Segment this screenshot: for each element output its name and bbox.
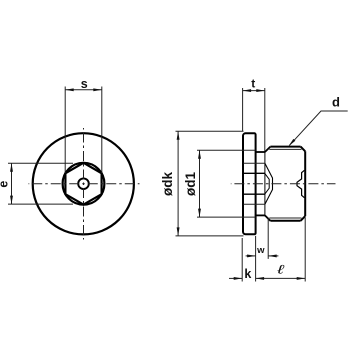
svg-text:s: s (81, 77, 88, 91)
phi-dk arrow bottom (177, 227, 180, 236)
k extension left (241, 238, 243, 282)
t arrow right (256, 89, 265, 92)
chamfer top-left of body (265, 147, 271, 152)
hexagon socket (65, 163, 101, 205)
s extension line right (101, 87, 103, 174)
washer face top silhouette (256, 151, 265, 153)
chamfer bottom-left of body (265, 215, 271, 220)
l arrow left (256, 277, 265, 280)
phi-dk extension bottom (176, 235, 244, 237)
w left ext (flange right face extended) (255, 236, 257, 282)
k approach line with arrow (229, 277, 242, 279)
s arrow right (93, 88, 102, 91)
w arrow right (pointing left) (268, 254, 277, 257)
l dimension line (256, 277, 306, 279)
phi-d1 extension bottom (197, 216, 256, 218)
l arrow right (297, 277, 306, 280)
svg-text:d: d (332, 95, 340, 110)
phi-dk extension top (176, 130, 244, 132)
phi-d1 arrow top (198, 150, 201, 159)
flange profile (side) (243, 133, 256, 234)
l extension right (304, 218, 306, 282)
phi-d1 arrow bottom (198, 209, 201, 218)
flange outer circle (33, 133, 134, 234)
s dimension line (65, 89, 102, 91)
thread crest top (270, 146, 300, 148)
socket inner cone (265, 173, 270, 194)
svg-text:w: w (256, 245, 265, 256)
svg-text:ød1: ød1 (183, 172, 198, 196)
thread crest bottom (270, 220, 300, 222)
phi-d1 dimension line (199, 150, 201, 217)
t extension right (264, 88, 266, 151)
e arrow top (10, 163, 13, 172)
right view centerline (231, 183, 336, 185)
socket outer cone (265, 163, 273, 204)
thread root top (269, 148, 301, 150)
w arrow left (pointing right) (247, 254, 256, 257)
k arrow (pointing right) (234, 277, 243, 280)
e extension line top (8, 162, 73, 164)
t arrow left (243, 89, 252, 92)
svg-text:e: e (0, 181, 10, 188)
s arrow left (65, 88, 74, 91)
t dimension line (243, 90, 265, 92)
w dimension left segment (246, 255, 256, 257)
phi-dk arrow top (177, 131, 180, 140)
right end cone recess (297, 170, 304, 197)
svg-text:k: k (244, 267, 251, 281)
center pilot hole circle (78, 178, 89, 189)
vertical centerline (83, 128, 85, 240)
hex corner line upper (244, 172, 265, 174)
body left face (d1 circle edge-on) (264, 151, 266, 216)
horizontal centerline (29, 183, 140, 185)
hex corner line lower (244, 193, 265, 195)
hex socket circumscribed circle (63, 163, 105, 205)
d leader arrowhead (288, 139, 295, 147)
chamfer bottom-right (301, 216, 306, 221)
phi-d1 extension top (197, 149, 256, 151)
washer face bottom silhouette (256, 214, 265, 216)
e dimension line (11, 163, 13, 204)
chamfer top-right (301, 147, 306, 152)
svg-text:t: t (251, 77, 255, 91)
d leader line (290, 111, 348, 145)
e arrow bottom (10, 196, 13, 205)
s extension line left (64, 87, 66, 174)
phi-dk dimension line (177, 131, 179, 236)
w extension right (267, 218, 269, 259)
thread root bottom (269, 217, 301, 219)
socket wall top (see-through) (244, 162, 265, 164)
socket wall bottom (244, 203, 265, 205)
t extension left (242, 88, 244, 131)
e extension line bottom (8, 203, 73, 205)
svg-text:ℓ: ℓ (276, 263, 284, 277)
w dimension right segment (268, 255, 278, 257)
body right edge (304, 151, 306, 216)
svg-text:ødk: ødk (160, 172, 175, 196)
